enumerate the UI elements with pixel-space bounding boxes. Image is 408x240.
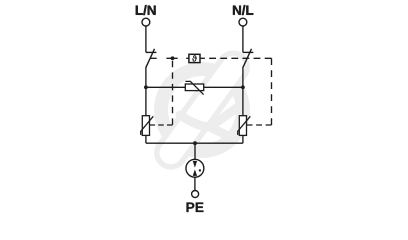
dashed linkage to left varistor	[150, 124, 173, 126]
wire right branch	[242, 67, 244, 116]
terminal L/N	[142, 18, 150, 26]
wire L-N bus right	[204, 86, 243, 88]
terminal label L/N	[136, 5, 156, 15]
varistor RV1 body (series L-N)	[185, 84, 203, 91]
varistor RV3 stroke	[238, 116, 251, 135]
dashed linkage down from node	[172, 61, 174, 125]
wire from L/N terminal	[145, 26, 147, 52]
junction node linkage	[171, 56, 175, 60]
linkage stub right of thermal monitor	[200, 57, 203, 59]
dashed linkage to right varistor	[247, 124, 272, 126]
disconnect switch F2 blade	[243, 49, 252, 68]
wire left branch	[145, 67, 147, 116]
disconnect switch F1 blade	[146, 49, 155, 68]
wire to PE terminal	[194, 177, 196, 190]
dashed linkage to right branch: horizontal run	[203, 57, 271, 59]
varistor RV2 body (left to PE)	[142, 116, 149, 136]
terminal label N/L	[233, 5, 253, 15]
junction dot bus right	[241, 85, 245, 89]
wire L-N bus left	[146, 86, 185, 88]
spark gap GDT body	[186, 159, 204, 177]
wire bottom bus	[146, 142, 243, 144]
varistor RV2 stroke	[141, 116, 154, 135]
wire to spark gap	[194, 143, 196, 159]
mechanical linkage dash at node	[166, 57, 177, 59]
gas filling dot	[199, 169, 201, 171]
wire below left varistor	[145, 135, 147, 143]
varistor RV1 stroke	[185, 81, 203, 94]
spark gap bottom electrode	[193, 169, 197, 176]
wire from N/L terminal	[242, 26, 244, 52]
thermal monitor symbol (theta)	[192, 55, 197, 61]
terminal N/L	[239, 18, 247, 26]
mechanical linkage from F1 blade	[150, 57, 156, 59]
thermal monitor box	[189, 54, 200, 62]
terminal PE	[192, 191, 199, 198]
linkage stub left of thermal monitor	[186, 57, 189, 59]
disconnect switch F1 fixed contact	[146, 51, 157, 53]
spark gap top electrode	[193, 161, 197, 168]
varistor RV3 body (right to PE)	[239, 116, 246, 136]
dashed linkage to right branch: vertical run	[271, 58, 273, 125]
terminal label PE	[187, 203, 204, 213]
junction dot bottom bus	[193, 141, 197, 145]
junction dot bus left	[144, 85, 148, 89]
wire below right varistor	[242, 135, 244, 143]
disconnect switch F2 fixed contact	[243, 51, 254, 53]
